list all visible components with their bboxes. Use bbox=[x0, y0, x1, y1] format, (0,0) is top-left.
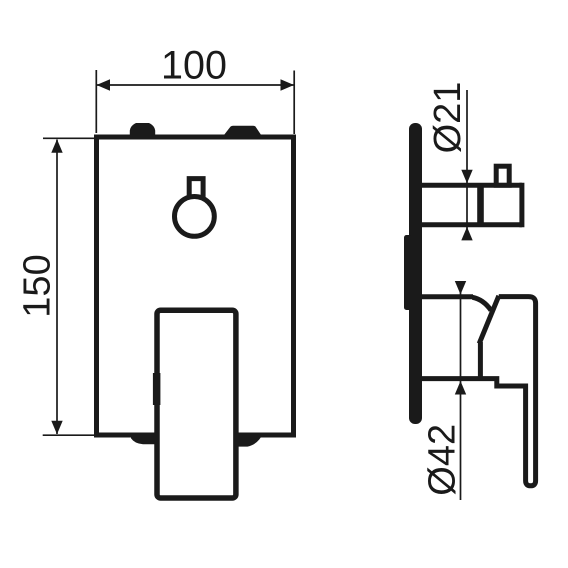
knob side view: indicator tab bbox=[496, 166, 509, 185]
dimension 100: right extension line bbox=[293, 71, 295, 135]
knob side view: top line bbox=[413, 183, 522, 188]
screw boss right (top edge) bbox=[224, 126, 261, 135]
lever side view: handle outline bbox=[413, 297, 536, 486]
knob side view: bottom line bbox=[413, 222, 522, 227]
dimension 100: dimension line bbox=[96, 84, 294, 86]
dimension 150: top extension line bbox=[43, 137, 94, 139]
right fillet under plate edge bbox=[238, 433, 263, 447]
dimension 150: dimension line bbox=[56, 140, 58, 435]
dimension D42: lower arrowhead bbox=[455, 381, 466, 395]
svg-text:Ø21: Ø21 bbox=[427, 82, 469, 154]
escutcheon plate front view bbox=[97, 137, 294, 435]
dimension D21: upper arrowhead bbox=[461, 170, 472, 184]
svg-text:100: 100 bbox=[161, 44, 227, 88]
knob side view: divider line bbox=[477, 185, 484, 225]
dimension 150: bottom arrowhead bbox=[51, 421, 62, 435]
dimension 100: right arrowhead bbox=[281, 79, 295, 90]
lever side view: neck slant bbox=[479, 296, 499, 344]
lever handle front parting mark bbox=[153, 373, 161, 405]
dimension D42: upper arrowhead bbox=[455, 281, 466, 295]
left fillet under plate edge bbox=[131, 433, 155, 444]
dimension 150: top arrowhead bbox=[51, 139, 62, 153]
knob side view: right edge bbox=[519, 183, 524, 228]
diverter knob front bbox=[175, 197, 215, 237]
dimension 100: left arrowhead bbox=[97, 79, 111, 90]
dimension D21: dimension line bbox=[466, 90, 468, 239]
recessed body bulge (side view) bbox=[404, 235, 412, 310]
svg-text:Ø42: Ø42 bbox=[421, 424, 463, 496]
lever side view: neck vertical bbox=[478, 342, 483, 379]
dimension 100: left extension line bbox=[95, 70, 97, 133]
lever side view: base top line bbox=[413, 294, 473, 299]
lever handle front bbox=[157, 310, 236, 498]
screw boss left (top edge) bbox=[130, 123, 155, 135]
dimension D42: dimension line bbox=[460, 282, 462, 500]
lever side view: dome arc bbox=[473, 297, 492, 310]
wall plate edge-on bar (side view) bbox=[409, 123, 422, 424]
knob indicator tab (front) bbox=[189, 179, 203, 202]
dimension D21: lower arrowhead bbox=[461, 227, 472, 241]
svg-text:150: 150 bbox=[17, 254, 59, 317]
dimension 150: bottom extension line bbox=[43, 434, 94, 436]
